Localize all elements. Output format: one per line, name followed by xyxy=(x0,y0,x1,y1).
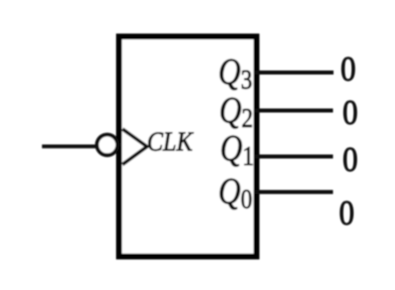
pin label Q3 xyxy=(218,53,252,95)
value 0 on Q2 xyxy=(343,94,358,132)
clock edge triangle xyxy=(123,129,148,165)
pin label Q0 xyxy=(218,172,252,214)
value 0 on Q0 xyxy=(339,195,354,233)
wire Q1 output xyxy=(254,155,333,159)
svg-text:0: 0 xyxy=(339,195,354,233)
wire Q3 output xyxy=(254,71,334,75)
pin label Q2 xyxy=(219,91,253,133)
inversion bubble on CLK xyxy=(97,135,118,156)
svg-text:0: 0 xyxy=(343,94,358,132)
wire Q2 output xyxy=(254,109,333,113)
value 0 on Q3 xyxy=(341,51,356,89)
value 0 on Q1 xyxy=(343,141,358,179)
wire Q0 output xyxy=(254,190,333,194)
svg-text:0: 0 xyxy=(343,141,358,179)
svg-text:0: 0 xyxy=(341,51,356,89)
svg-text:CLK: CLK xyxy=(147,126,194,157)
pin label Q1 xyxy=(220,129,254,171)
wire CLK input xyxy=(42,144,97,148)
register U1 body xyxy=(119,37,257,257)
